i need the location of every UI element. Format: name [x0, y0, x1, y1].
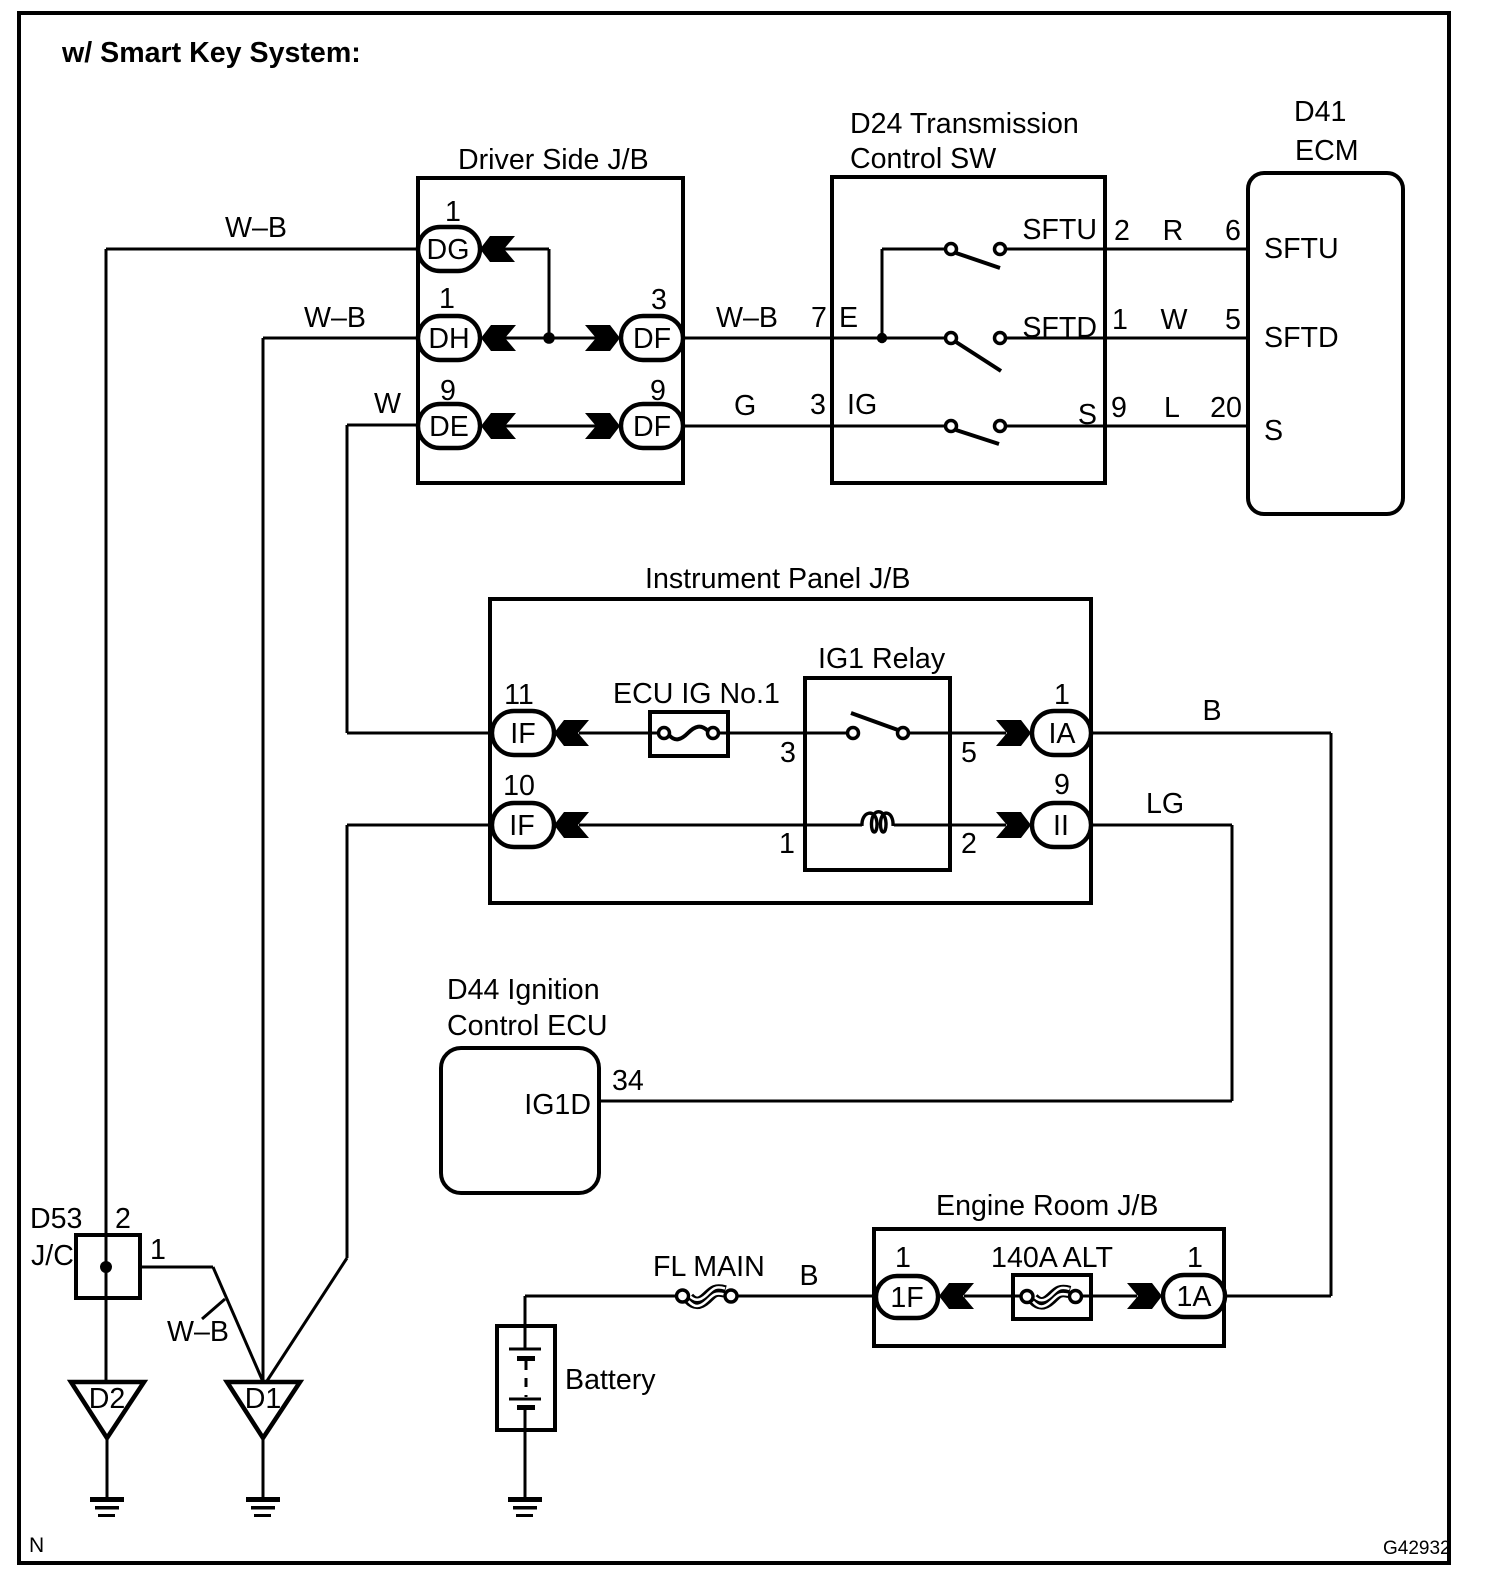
- svg-text:9: 9: [650, 375, 666, 407]
- svg-text:G: G: [734, 390, 756, 422]
- svg-text:D44 Ignition: D44 Ignition: [447, 974, 600, 1006]
- svg-text:DE: DE: [429, 411, 469, 443]
- svg-text:3: 3: [651, 284, 667, 316]
- svg-text:140A ALT: 140A ALT: [991, 1242, 1113, 1274]
- svg-text:L: L: [1164, 392, 1180, 424]
- svg-text:N: N: [29, 1534, 44, 1557]
- svg-text:3: 3: [810, 389, 826, 421]
- svg-text:9: 9: [1111, 392, 1127, 424]
- svg-text:9: 9: [440, 375, 456, 407]
- svg-text:1: 1: [1187, 1242, 1203, 1274]
- svg-text:DF: DF: [633, 323, 671, 355]
- svg-text:IG1D: IG1D: [524, 1089, 591, 1121]
- svg-text:Instrument Panel J/B: Instrument Panel J/B: [645, 563, 910, 595]
- svg-text:Engine Room J/B: Engine Room J/B: [936, 1190, 1159, 1222]
- svg-text:R: R: [1163, 215, 1184, 247]
- svg-text:ECM: ECM: [1295, 135, 1359, 167]
- svg-text:1: 1: [445, 196, 461, 228]
- svg-text:6: 6: [1225, 215, 1241, 247]
- svg-text:10: 10: [503, 770, 535, 802]
- svg-text:9: 9: [1054, 769, 1070, 801]
- svg-text:S: S: [1264, 415, 1283, 447]
- svg-text:Control SW: Control SW: [850, 143, 996, 175]
- svg-text:SFTD: SFTD: [1022, 312, 1097, 344]
- svg-text:W–B: W–B: [304, 302, 366, 334]
- svg-text:2: 2: [115, 1203, 131, 1235]
- svg-text:5: 5: [961, 737, 977, 769]
- svg-text:1: 1: [439, 283, 455, 315]
- svg-text:1F: 1F: [890, 1282, 923, 1314]
- svg-text:G42932: G42932: [1383, 1538, 1451, 1559]
- svg-text:D2: D2: [89, 1383, 126, 1415]
- svg-text:S: S: [1078, 399, 1097, 431]
- svg-text:1: 1: [150, 1234, 166, 1266]
- svg-text:1: 1: [1112, 304, 1128, 336]
- svg-text:DH: DH: [428, 323, 469, 355]
- svg-text:ECU IG No.1: ECU IG No.1: [613, 678, 780, 710]
- svg-text:IG1 Relay: IG1 Relay: [818, 643, 946, 675]
- svg-text:1: 1: [895, 1242, 911, 1274]
- svg-text:E: E: [839, 302, 858, 334]
- svg-text:W: W: [1161, 304, 1188, 336]
- svg-text:IF: IF: [509, 810, 534, 842]
- svg-text:2: 2: [961, 828, 977, 860]
- svg-text:SFTU: SFTU: [1022, 214, 1097, 246]
- svg-text:SFTD: SFTD: [1264, 322, 1339, 354]
- svg-text:B: B: [799, 1260, 818, 1292]
- svg-text:Battery: Battery: [565, 1364, 656, 1396]
- svg-text:7: 7: [811, 302, 827, 334]
- svg-text:1: 1: [779, 828, 795, 860]
- svg-text:1A: 1A: [1177, 1281, 1213, 1313]
- svg-text:Control ECU: Control ECU: [447, 1010, 608, 1042]
- svg-text:D41: D41: [1294, 96, 1346, 128]
- svg-text:J/C: J/C: [31, 1240, 74, 1272]
- svg-text:1: 1: [1054, 679, 1070, 711]
- svg-text:B: B: [1202, 695, 1221, 727]
- svg-text:IG: IG: [847, 389, 877, 421]
- svg-text:11: 11: [504, 679, 534, 711]
- svg-text:SFTU: SFTU: [1264, 233, 1339, 265]
- svg-text:W: W: [374, 388, 401, 420]
- svg-text:DG: DG: [427, 234, 470, 266]
- svg-text:LG: LG: [1146, 788, 1184, 820]
- svg-text:IA: IA: [1048, 718, 1076, 750]
- svg-text:34: 34: [612, 1065, 644, 1097]
- svg-text:W–B: W–B: [716, 302, 778, 334]
- svg-text:W–B: W–B: [225, 212, 287, 244]
- svg-text:2: 2: [1114, 215, 1130, 247]
- svg-text:3: 3: [780, 737, 796, 769]
- svg-text:DF: DF: [633, 411, 671, 443]
- svg-text:D53: D53: [30, 1203, 82, 1235]
- svg-text:20: 20: [1210, 392, 1242, 424]
- svg-text:w/ Smart Key System:: w/ Smart Key System:: [61, 37, 361, 69]
- svg-text:D1: D1: [245, 1383, 282, 1415]
- svg-text:FL MAIN: FL MAIN: [653, 1251, 765, 1283]
- svg-text:II: II: [1053, 810, 1069, 842]
- svg-text:5: 5: [1225, 304, 1241, 336]
- svg-text:W–B: W–B: [167, 1316, 229, 1348]
- svg-text:D24 Transmission: D24 Transmission: [850, 108, 1079, 140]
- svg-text:Driver Side J/B: Driver Side J/B: [458, 144, 649, 176]
- svg-text:IF: IF: [510, 718, 535, 750]
